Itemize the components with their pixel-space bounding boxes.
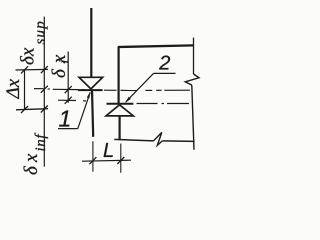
tick slash at Delta-x bottom: [21, 106, 28, 113]
break symbol (bottom rail): [154, 132, 163, 145]
svg-text:δx: δx: [18, 47, 39, 65]
tick slash at delta-x-sup top: [41, 66, 48, 73]
leader arrowhead for label 2: [125, 97, 131, 103]
svg-text:2: 2: [158, 53, 170, 75]
svg-text:sup: sup: [33, 20, 49, 44]
L dimension line: [82, 160, 131, 161]
wire: right vertical upper with tick above rail: [193, 38, 195, 74]
wire: bottom rail right part: [162, 140, 194, 143]
leader line for label 1: diagonal: [78, 92, 90, 128]
dimension line delta-x-sup / delta-x-inf: [43, 17, 45, 167]
tick slash at L dimension left: [89, 157, 96, 164]
diode 1 cathode bar: [78, 89, 103, 91]
leader arrowhead for label 1: [87, 92, 90, 99]
diode 2 cathode bar: [107, 103, 134, 105]
lower limit extension line: [16, 109, 48, 110]
L extension line right: [120, 144, 122, 173]
tick slash at Delta-x top: [21, 66, 28, 73]
diode 2 triangle: [106, 105, 133, 116]
break symbol (right vertical): [185, 74, 199, 85]
svg-text:δx: δx: [21, 150, 42, 175]
wire: element 2 cathode lead: [117, 47, 119, 104]
tick slash at delta-x-inf bottom: [41, 106, 48, 113]
svg-text:L: L: [103, 140, 114, 162]
upper limit extension line: [16, 68, 49, 71]
dimension line delta-x-i: [67, 52, 69, 103]
leader line for label 1: shelf: [58, 128, 78, 130]
centerline 1 (axis of element 1, dash-dot): [34, 89, 190, 91]
svg-text:Δx: Δx: [3, 78, 24, 99]
tick slash at delta-x-i bottom: [65, 97, 72, 104]
svg-text:1: 1: [59, 106, 72, 132]
tick slash at centerline 1 on line B: [41, 86, 48, 93]
tick slash at L dimension right: [117, 157, 124, 164]
wire: element 1 upper anode lead: [90, 8, 92, 78]
centerline 2 (axis of element 2, dash-dot): [58, 100, 189, 103]
leader line for label 2: diagonal: [126, 73, 154, 102]
L extension line left: [92, 141, 94, 171]
leader line for label 2: shelf: [154, 72, 176, 74]
wire: element 2 anode lead: [118, 116, 120, 140]
svg-text:i: i: [57, 60, 72, 64]
dimension line Delta-x: [24, 70, 26, 110]
svg-text:inf: inf: [33, 133, 49, 152]
wire: top rail: [118, 45, 194, 47]
diode 1 (element 1) triangle: [79, 77, 103, 89]
wire: right vertical lower: [192, 85, 194, 150]
tick slash at delta-x-i top: [65, 86, 72, 93]
wire: element 1 lower cathode lead: [92, 90, 93, 137]
wire: bottom rail left part: [114, 139, 153, 141]
